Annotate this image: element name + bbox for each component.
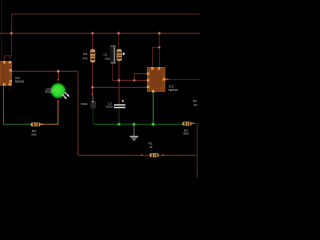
wire: IC1 output to right edge [166,78,201,80]
svg-text:100µ: 100µ [106,105,113,109]
pin tick R1 left [141,154,143,156]
pin tick LED top [57,78,59,80]
plus marker [122,53,125,56]
wire: green gnd net [92,108,94,124]
capacitor C2 [111,45,116,64]
resistor R2 [183,122,192,126]
IC U-IC1 NE555 [147,67,166,92]
svg-text:10µ: 10µ [105,57,110,61]
wire: right vertical [196,123,198,178]
wire: IC1 gnd stub green [152,92,154,124]
wire: threshold horizontal [119,79,147,81]
wire: IC3 output horizontal [12,70,78,72]
svg-text:47k: 47k [83,56,88,60]
wire: trigger horizontal [93,86,148,88]
wire: left frame vertical [0,0,2,61]
wire: R2 right tick [191,122,194,124]
wire: pin bracket IC1 [134,74,147,81]
svg-text:560: 560 [31,133,36,137]
wire: IC3 pin stub [9,56,11,62]
wire: R2 to right vertical [195,122,198,124]
wire: C2 bottom hook [113,64,119,81]
wire: R4 bottom to junction [92,62,94,96]
svg-text:5mm: 5mm [45,90,52,94]
svg-text:NE555: NE555 [15,80,25,84]
ground symbol [133,124,135,136]
switch SW1 [91,96,96,108]
pin tick R1 right [162,154,164,156]
wire: orange horizontal to R3 [40,123,58,125]
resistor R1 [150,153,159,157]
resistor R3 [31,123,43,127]
svg-text:SW1: SW1 [81,102,88,106]
wire: C1 bottom stub [118,108,120,124]
IC U-IC3 NE555 [0,61,12,86]
wire: green horizontal to R3 [3,123,31,125]
pin tick switch top [92,93,94,95]
wire: R5 top stub [118,33,120,49]
junction dots green [117,122,155,126]
pin tick LED bottom [57,100,59,102]
wire: LED anode stub [57,71,59,80]
svg-text:1k: 1k [149,145,153,149]
wire: R4 top stub [92,33,94,49]
wire: LED cathode down (orange) [57,102,59,124]
LED D1 [50,82,70,99]
wire: second rail y=33 [0,32,200,34]
wire: vertical down right of LED [77,71,79,155]
capacitor C1 [114,100,125,108]
resistor R4 [90,49,95,62]
svg-text:560: 560 [183,132,188,136]
wire: VCC top rail [12,14,200,33]
wire: R5 bottom to C1 [118,61,120,105]
wire: green from IC3 gnd down [2,85,4,124]
wire: IC3 supply feed [4,33,11,61]
resistor R5 [117,49,122,60]
wire: bottom rail [78,154,197,156]
svg-text:NE555: NE555 [168,88,178,92]
junction dots red [10,31,162,89]
wire: IC1 supply feeds [158,33,160,67]
pin tick IC1 out [166,78,169,80]
wire: IC3 unused stub [9,86,11,92]
